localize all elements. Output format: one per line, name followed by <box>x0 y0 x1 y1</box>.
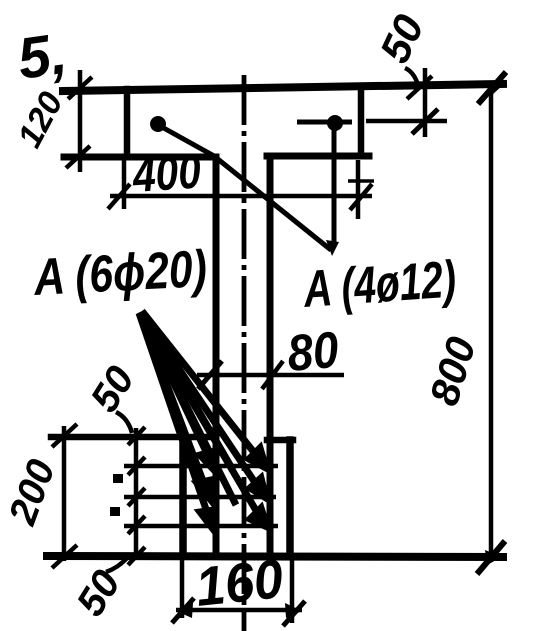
leader squiggle from lower 50 label <box>106 557 128 572</box>
spacing ticks on x=136 line <box>128 427 145 445</box>
flange left edge <box>124 89 131 157</box>
fan filler stroke <box>141 312 233 470</box>
svg-text:200: 200 <box>1 454 64 531</box>
bottom arrow of 800 <box>477 541 505 574</box>
tick top of 200 <box>52 424 77 447</box>
extension line left for 160 <box>180 557 185 618</box>
spacing reference line at x=136 <box>134 428 139 560</box>
block left edge <box>179 437 187 556</box>
leader diagonal from left dot to label <box>160 126 331 250</box>
left arrow of 160 <box>172 598 194 623</box>
leader line through right dot <box>297 120 352 125</box>
dimension line 50 top right <box>366 119 447 124</box>
leader arrowhead at label A(4o12) <box>326 240 339 256</box>
block bottom edge (extends to 800 dim line) <box>47 556 503 557</box>
dimension line 120 (left) <box>78 70 83 172</box>
rebar row line 2 <box>124 495 276 500</box>
top arrow of 800 <box>478 72 506 104</box>
fan leader 1 to bar row1 left <box>139 311 267 529</box>
tick bottom of 120 <box>66 146 90 168</box>
right step of bottom block <box>267 437 293 444</box>
dimension line 400 <box>110 194 372 199</box>
svg-text:A (6ϕ20): A (6ϕ20) <box>32 240 209 307</box>
svg-text:50: 50 <box>82 359 143 420</box>
dimension line 80 <box>197 373 344 378</box>
tick right of 80 <box>262 361 283 389</box>
leader vertical from right dot to label <box>332 125 337 246</box>
svg-text:80: 80 <box>285 322 341 383</box>
fan leader 5 to bar row3 left <box>139 313 209 518</box>
dimension line 160 <box>176 608 302 613</box>
extension line left of 400 <box>122 160 127 209</box>
tick right of 400 <box>350 184 372 210</box>
dimension 50 (top right) extension line <box>423 68 428 137</box>
svg-text:400: 400 <box>130 145 203 202</box>
rebar row line 3 <box>124 524 278 529</box>
dimension line 200 (left) <box>62 426 67 561</box>
flange bottom right edge <box>267 153 369 160</box>
block right edge <box>286 440 294 556</box>
svg-text:120: 120 <box>11 86 71 154</box>
flange bottom left edge (with left extension) <box>64 154 216 161</box>
block top edge / left step (extends left) <box>51 434 216 441</box>
fan leader 6 to bar row3 right <box>140 313 261 519</box>
tick bottom of 200 <box>52 545 77 568</box>
flange right edge <box>358 86 365 156</box>
leader squiggle from 50 label <box>405 68 418 85</box>
tick left of 80 <box>198 361 222 389</box>
tick left of 400 <box>108 184 130 209</box>
fan leader 4 to bar row2 right <box>141 312 260 490</box>
ditto dot 1 <box>113 474 123 483</box>
dimension line 800 (right) <box>489 84 494 558</box>
web right edge <box>267 156 274 554</box>
fan leader 2 to bar row1 right <box>142 311 260 460</box>
svg-text:5,: 5, <box>14 21 71 92</box>
rebar row line 1 <box>124 464 278 469</box>
svg-text:50: 50 <box>371 8 433 70</box>
svg-text:160: 160 <box>193 548 286 618</box>
extension line right for 160 <box>290 557 295 623</box>
ditto dot 2 <box>110 507 120 516</box>
fan leader 3 to bar row2 left <box>140 313 206 489</box>
rebar dot left (4o12) <box>150 116 166 132</box>
rebar dot right (4o12) <box>327 115 343 131</box>
svg-text:50: 50 <box>68 563 129 624</box>
vertical centerline (dash-dot) <box>242 75 247 631</box>
right arrow of 160 <box>283 601 305 626</box>
svg-text:A (4ø12): A (4ø12) <box>301 249 458 318</box>
web left edge <box>213 157 220 554</box>
svg-text:800: 800 <box>421 332 485 411</box>
tick on dim line for 50 <box>412 109 438 134</box>
extension line right of 400 <box>356 160 361 219</box>
tick top of 120 <box>68 77 92 99</box>
leader squiggle from upper 50 label <box>116 412 132 433</box>
tick on flange line for 50 <box>407 76 432 99</box>
flange top edge (extends to 800 dim line) <box>63 84 503 91</box>
fan filler stroke 2 <box>140 313 236 505</box>
cross dash at right tick of 400 <box>348 179 374 183</box>
